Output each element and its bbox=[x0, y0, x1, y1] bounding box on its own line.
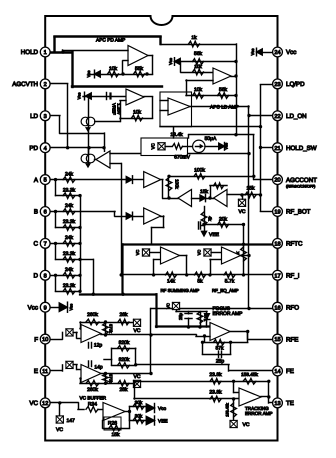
svg-text:R34: R34 bbox=[88, 402, 97, 408]
svg-text:Vcc: Vcc bbox=[286, 49, 296, 56]
svg-text:LD: LD bbox=[30, 113, 38, 120]
svg-text:158.45k: 158.45k bbox=[241, 372, 258, 377]
svg-text:24k: 24k bbox=[65, 267, 74, 273]
svg-text:PD: PD bbox=[29, 145, 38, 152]
svg-text:Vcc: Vcc bbox=[250, 49, 255, 56]
svg-text:VEE: VEE bbox=[158, 419, 168, 425]
svg-text:24k: 24k bbox=[65, 235, 74, 241]
svg-text:VC BUFFER: VC BUFFER bbox=[80, 396, 107, 401]
svg-text:E: E bbox=[34, 368, 38, 375]
svg-text:RF SUMMING AMP: RF SUMMING AMP bbox=[161, 288, 200, 293]
svg-text:TE: TE bbox=[286, 400, 294, 407]
svg-text:4: 4 bbox=[44, 146, 47, 152]
svg-text:RFTC: RFTC bbox=[286, 241, 303, 248]
svg-text:870k: 870k bbox=[109, 374, 114, 383]
svg-text:11: 11 bbox=[42, 369, 48, 375]
svg-text:B: B bbox=[34, 209, 38, 216]
svg-text:260k: 260k bbox=[87, 312, 98, 318]
svg-text:56k: 56k bbox=[194, 51, 203, 57]
svg-text:820k: 820k bbox=[119, 357, 130, 363]
svg-text:23.3k: 23.3k bbox=[63, 219, 76, 225]
svg-text:10k: 10k bbox=[133, 110, 142, 116]
svg-text:ERROR AMP: ERROR AMP bbox=[213, 311, 244, 317]
svg-text:147: 147 bbox=[67, 418, 76, 424]
svg-text:870k: 870k bbox=[109, 324, 114, 333]
svg-text:12p: 12p bbox=[94, 343, 103, 349]
svg-text:D: D bbox=[34, 273, 39, 280]
svg-text:24: 24 bbox=[274, 50, 280, 56]
svg-text:14p: 14p bbox=[94, 365, 103, 371]
svg-text:24k: 24k bbox=[65, 171, 74, 177]
svg-text:20k: 20k bbox=[219, 216, 228, 222]
svg-text:RF_I: RF_I bbox=[286, 273, 300, 280]
svg-text:9: 9 bbox=[44, 305, 47, 311]
svg-text:24k: 24k bbox=[65, 203, 74, 209]
svg-text:VC: VC bbox=[165, 303, 170, 309]
svg-text:20: 20 bbox=[274, 178, 280, 184]
svg-text:APC PD AMP: APC PD AMP bbox=[96, 38, 125, 44]
svg-text:Vcc: Vcc bbox=[28, 304, 38, 311]
svg-text:7: 7 bbox=[44, 242, 47, 248]
svg-text:10k: 10k bbox=[109, 66, 118, 72]
svg-text:APC LD AMP: APC LD AMP bbox=[210, 105, 239, 111]
svg-text:26k: 26k bbox=[119, 312, 128, 318]
svg-text:VC: VC bbox=[56, 427, 63, 433]
svg-text:15k: 15k bbox=[111, 432, 120, 438]
svg-text:23: 23 bbox=[274, 82, 280, 88]
svg-text:LD_ON: LD_ON bbox=[286, 113, 307, 120]
svg-text:30k: 30k bbox=[135, 400, 143, 405]
svg-text:HOLD_SW: HOLD_SW bbox=[286, 145, 317, 152]
svg-text:23.3k: 23.3k bbox=[63, 283, 76, 289]
svg-text:17: 17 bbox=[274, 273, 280, 279]
svg-text:(RFAGC/ON/OFF): (RFAGC/ON/OFF) bbox=[286, 185, 315, 189]
svg-text:25p: 25p bbox=[178, 312, 183, 320]
svg-text:Vcc: Vcc bbox=[77, 93, 82, 100]
svg-text:15k: 15k bbox=[246, 185, 255, 191]
svg-text:87k: 87k bbox=[215, 345, 224, 351]
svg-text:22: 22 bbox=[274, 114, 280, 120]
svg-text:23.3k: 23.3k bbox=[63, 187, 76, 193]
svg-text:Vcc: Vcc bbox=[69, 304, 74, 311]
svg-text:RF_EQ_AMP: RF_EQ_AMP bbox=[212, 288, 239, 293]
svg-text:LQ/PD: LQ/PD bbox=[286, 81, 305, 88]
svg-text:AGCVTH: AGCVTH bbox=[12, 81, 38, 88]
svg-text:10k: 10k bbox=[194, 87, 203, 93]
svg-text:158.45k: 158.45k bbox=[226, 403, 230, 417]
svg-text:Vcc: Vcc bbox=[168, 58, 173, 65]
svg-text:1: 1 bbox=[44, 50, 47, 56]
svg-text:18: 18 bbox=[274, 242, 280, 248]
svg-text:8: 8 bbox=[44, 273, 47, 279]
svg-text:5: 5 bbox=[44, 178, 47, 184]
svg-text:100k: 100k bbox=[194, 168, 205, 174]
svg-text:14k: 14k bbox=[167, 278, 176, 284]
svg-text:25p: 25p bbox=[216, 359, 225, 365]
svg-text:23.8k: 23.8k bbox=[209, 390, 222, 396]
svg-text:19: 19 bbox=[274, 210, 280, 216]
svg-text:RF_BOT: RF_BOT bbox=[286, 209, 311, 216]
svg-text:ERROR AMP: ERROR AMP bbox=[245, 411, 273, 416]
svg-text:5.7k: 5.7k bbox=[225, 278, 235, 284]
svg-text:VC: VC bbox=[243, 422, 250, 428]
svg-text:1k: 1k bbox=[191, 35, 197, 41]
svg-text:4k: 4k bbox=[207, 216, 212, 221]
svg-text:VC: VC bbox=[135, 250, 140, 256]
svg-text:RFO: RFO bbox=[286, 304, 299, 311]
svg-text:13.4k: 13.4k bbox=[170, 132, 183, 138]
svg-text:VC: VC bbox=[134, 374, 141, 380]
svg-text:VC: VC bbox=[134, 328, 141, 334]
svg-text:26k: 26k bbox=[119, 387, 128, 393]
svg-text:30k: 30k bbox=[135, 414, 143, 419]
svg-text:260k: 260k bbox=[87, 387, 98, 393]
svg-text:Vcc: Vcc bbox=[86, 71, 91, 78]
svg-text:VC: VC bbox=[29, 400, 38, 407]
svg-text:10: 10 bbox=[42, 337, 48, 343]
svg-text:3: 3 bbox=[44, 114, 47, 120]
svg-text:AGCCONT: AGCCONT bbox=[286, 177, 317, 184]
svg-text:820k: 820k bbox=[119, 340, 130, 346]
svg-text:C: C bbox=[34, 241, 39, 248]
svg-text:VC: VC bbox=[239, 209, 246, 215]
svg-text:16: 16 bbox=[274, 305, 280, 311]
svg-text:Vcc: Vcc bbox=[224, 143, 229, 150]
svg-text:23.3k: 23.3k bbox=[63, 251, 76, 257]
svg-text:Vcc: Vcc bbox=[158, 406, 167, 412]
svg-text:6: 6 bbox=[44, 210, 47, 216]
svg-text:12: 12 bbox=[42, 401, 48, 407]
svg-text:21: 21 bbox=[274, 146, 280, 152]
svg-text:100k: 100k bbox=[175, 179, 180, 189]
svg-text:VEE: VEE bbox=[209, 232, 220, 238]
svg-text:13: 13 bbox=[274, 401, 280, 407]
svg-text:14: 14 bbox=[274, 369, 280, 375]
svg-text:15: 15 bbox=[274, 337, 280, 343]
svg-text:FE: FE bbox=[286, 368, 294, 375]
svg-text:HOLD: HOLD bbox=[21, 49, 39, 56]
svg-text:VC: VC bbox=[151, 143, 156, 149]
svg-text:F: F bbox=[34, 336, 38, 343]
svg-text:RFE: RFE bbox=[286, 336, 298, 343]
svg-text:55k: 55k bbox=[135, 66, 144, 72]
svg-text:50µA: 50µA bbox=[205, 136, 217, 142]
svg-text:VREF: VREF bbox=[112, 103, 117, 115]
svg-text:56k: 56k bbox=[219, 87, 228, 93]
svg-text:2: 2 bbox=[44, 82, 47, 88]
svg-text:10k: 10k bbox=[194, 64, 202, 69]
svg-text:15k: 15k bbox=[200, 189, 209, 195]
svg-text:5k: 5k bbox=[197, 278, 203, 284]
svg-text:VC: VC bbox=[197, 250, 202, 256]
svg-text:670mV: 670mV bbox=[174, 155, 191, 161]
svg-text:23.8k: 23.8k bbox=[209, 372, 222, 378]
